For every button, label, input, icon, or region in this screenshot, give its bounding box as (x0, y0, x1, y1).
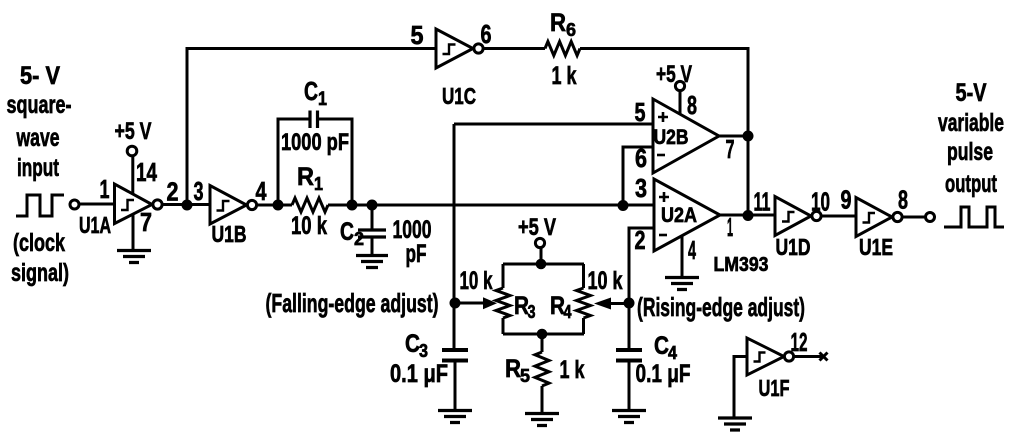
svg-text:6: 6 (635, 143, 647, 173)
svg-text:U1A: U1A (79, 212, 111, 238)
svg-text:square-: square- (7, 91, 72, 119)
svg-text:7: 7 (726, 134, 735, 164)
svg-text:8: 8 (687, 90, 697, 120)
svg-text:R: R (505, 355, 521, 383)
svg-text:14: 14 (136, 157, 157, 187)
svg-text:C: C (304, 76, 318, 106)
svg-text:1: 1 (318, 89, 327, 110)
svg-text:output: output (945, 170, 997, 198)
svg-text:U2A: U2A (661, 204, 697, 227)
svg-text:9: 9 (841, 185, 852, 215)
svg-text:6: 6 (481, 19, 492, 49)
svg-text:3: 3 (194, 176, 204, 206)
svg-text:10 k: 10 k (291, 212, 327, 240)
svg-text:4: 4 (688, 235, 696, 265)
svg-text:(clock: (clock (13, 229, 65, 257)
svg-text:5: 5 (411, 20, 424, 50)
svg-text:3: 3 (419, 341, 428, 361)
svg-text:U1C: U1C (442, 83, 476, 109)
svg-text:2: 2 (354, 229, 364, 249)
svg-text:U1F: U1F (759, 375, 790, 401)
svg-text:1000 pF: 1000 pF (281, 129, 349, 156)
svg-text:6: 6 (566, 20, 576, 40)
svg-text:+5 V: +5 V (115, 118, 152, 145)
svg-text:R: R (297, 163, 314, 191)
svg-text:10: 10 (811, 187, 830, 217)
svg-text:5: 5 (635, 97, 646, 127)
svg-text:U1D: U1D (776, 234, 811, 260)
svg-text:C: C (654, 332, 669, 360)
svg-text:input: input (17, 154, 59, 182)
svg-text:1: 1 (100, 174, 110, 204)
svg-text:0.1 μF: 0.1 μF (390, 360, 448, 388)
svg-text:(Rising-edge adjust): (Rising-edge adjust) (637, 292, 805, 322)
svg-text:5- V: 5- V (20, 62, 60, 90)
svg-text:variable: variable (938, 109, 1004, 137)
svg-text:2: 2 (635, 225, 646, 255)
svg-text:U1E: U1E (859, 234, 893, 260)
svg-text:C: C (405, 330, 420, 358)
svg-text:11: 11 (754, 187, 771, 217)
svg-text:7: 7 (140, 207, 152, 237)
svg-text:signal): signal) (11, 259, 69, 287)
svg-text:8: 8 (898, 185, 908, 215)
svg-text:C: C (340, 218, 354, 246)
svg-text:10 k: 10 k (460, 267, 493, 295)
svg-text:1 k: 1 k (552, 62, 577, 90)
svg-text:U2B: U2B (654, 126, 689, 149)
svg-text:R: R (550, 9, 566, 37)
svg-text:1: 1 (314, 174, 323, 194)
svg-text:5-V: 5-V (956, 79, 987, 107)
svg-text:LM393: LM393 (714, 254, 769, 276)
svg-text:4: 4 (668, 343, 677, 363)
svg-text:4: 4 (256, 176, 267, 206)
svg-text:12: 12 (791, 327, 808, 357)
svg-text:4: 4 (564, 302, 572, 322)
svg-text:1 k: 1 k (560, 356, 585, 384)
svg-text:pF: pF (406, 240, 427, 268)
svg-text:2: 2 (167, 177, 179, 207)
svg-text:U1B: U1B (212, 221, 247, 247)
svg-text:(Falling-edge adjust): (Falling-edge adjust) (266, 288, 439, 318)
svg-text:+5 V: +5 V (518, 214, 556, 241)
svg-text:wave: wave (16, 124, 60, 152)
svg-text:5: 5 (520, 366, 530, 386)
svg-text:3: 3 (528, 302, 536, 322)
svg-text:10 k: 10 k (588, 267, 623, 295)
svg-text:pulse: pulse (947, 138, 993, 166)
svg-text:0.1 μF: 0.1 μF (636, 360, 691, 388)
svg-text:1: 1 (727, 212, 733, 242)
svg-text:3: 3 (635, 173, 647, 203)
svg-text:+5 V: +5 V (656, 61, 692, 88)
